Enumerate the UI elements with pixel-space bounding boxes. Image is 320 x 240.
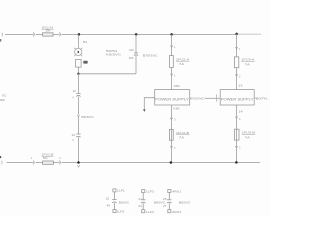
arrow box1 left down	[143, 109, 146, 112]
svg-text:50A: 50A	[43, 156, 48, 160]
chevron V4 pin2	[235, 74, 237, 76]
wire	[142, 203, 144, 209]
capacitor V1-a curve	[76, 94, 80, 97]
lamp B1 cross	[74, 48, 82, 56]
svg-text:1FU3-B: 1FU3-B	[242, 131, 255, 135]
terminal square 4RU2	[168, 210, 171, 213]
wire V1 to rail B	[77, 67, 79, 74]
wire rail B	[79, 73, 137, 75]
svg-text:5A6: 5A6	[129, 48, 134, 52]
svg-text:1LF2: 1LF2	[116, 209, 124, 213]
svg-text:7A: 7A	[179, 136, 184, 140]
capacitor V1-b curve	[76, 135, 80, 138]
svg-text:4: 4	[72, 97, 74, 100]
wire V3 upper	[171, 34, 173, 55]
underline	[176, 134, 189, 136]
capacitor C2 curve	[141, 201, 146, 204]
svg-text:B70/SVC: B70/SVC	[190, 96, 205, 100]
wire V1 lower	[77, 117, 79, 134]
wire	[168, 203, 170, 209]
svg-text:1LF4: 1LF4	[146, 210, 154, 214]
underline	[241, 60, 254, 62]
svg-text:WER: WER	[0, 98, 5, 102]
fuse 1FU2-B body	[169, 129, 173, 140]
wire top rail	[5, 33, 237, 35]
wire B70/SVC to box2	[205, 97, 221, 99]
svg-text:3: 3	[174, 119, 176, 122]
wire V1 bottom	[77, 137, 79, 162]
svg-text:25: 25	[163, 197, 167, 201]
chevron V4 pin4	[235, 117, 237, 119]
wire box2 right stub	[254, 97, 255, 99]
svg-text:7A: 7A	[245, 63, 250, 67]
junction dot D (top rail / V4)	[235, 33, 238, 36]
svg-text:K81: K81	[174, 84, 181, 88]
svg-text:K6/SVC: K6/SVC	[106, 53, 122, 57]
svg-text:22: 22	[73, 90, 77, 93]
wire V3 to box1	[171, 67, 173, 89]
svg-text:POWER SUPPLY: POWER SUPPLY	[155, 97, 189, 101]
wire V2 lower	[135, 56, 137, 74]
wire bottom rail	[7, 162, 261, 164]
wire V4 upper	[236, 34, 238, 57]
underline	[242, 134, 255, 136]
svg-text:7A: 7A	[179, 62, 184, 66]
capacitor group 2	[141, 190, 146, 213]
svg-text:B6SVC: B6SVC	[119, 201, 130, 205]
svg-text:5A8: 5A8	[129, 56, 134, 60]
junction dot F (bottom rail / V1)	[77, 161, 80, 164]
svg-text:POWER SUPPLY: POWER SUPPLY	[221, 97, 254, 101]
badge dark label	[83, 61, 87, 64]
fuse 1FU2-A body	[170, 56, 174, 68]
capacitor C2 plate	[141, 199, 146, 201]
svg-text:VDC: VDC	[2, 94, 6, 98]
junction dot G (bottom rail / V3)	[170, 161, 173, 164]
fuse F2 body	[43, 161, 54, 164]
svg-text:1LF3: 1LF3	[146, 190, 154, 194]
svg-text:B1: B1	[83, 40, 88, 44]
wire V4 below box2	[236, 105, 238, 162]
svg-text:B70/SVC: B70/SVC	[143, 53, 158, 57]
svg-text:B0/TH,: B0/TH,	[256, 97, 268, 101]
svg-text:1FU3-A: 1FU3-A	[241, 58, 254, 62]
svg-text:1FU2-A: 1FU2-A	[176, 57, 189, 61]
lamp B1 circle	[75, 48, 82, 55]
chevron V3 pin2	[170, 74, 172, 76]
svg-text:21: 21	[138, 197, 142, 201]
wire V4 to box2	[236, 68, 238, 90]
svg-text:4: 4	[239, 118, 241, 121]
svg-text:49: 49	[107, 203, 111, 207]
terminal square 1LF2	[113, 210, 116, 213]
fuse F1 right terminal	[59, 32, 60, 36]
svg-text:27: 27	[163, 204, 167, 208]
svg-text:13: 13	[238, 83, 243, 87]
lamp B1 center blob	[77, 51, 79, 54]
capacitor C3 curve	[167, 201, 172, 204]
svg-text:9: 9	[72, 139, 74, 142]
left edge mark top	[0, 39, 1, 42]
svg-text:22: 22	[106, 197, 110, 201]
wire	[113, 192, 115, 199]
contact V2 plate	[134, 52, 138, 54]
wire	[142, 193, 144, 200]
svg-text:1FU2-B: 1FU2-B	[176, 131, 189, 135]
svg-text:B6SVC: B6SVC	[179, 201, 191, 205]
svg-text:2: 2	[174, 75, 176, 78]
wire top rail faint right	[237, 33, 261, 35]
svg-text:1: 1	[174, 46, 176, 49]
terminal square 1LF4	[142, 210, 145, 213]
svg-text:50A: 50A	[46, 29, 51, 33]
svg-text:1LF1: 1LF1	[117, 189, 125, 193]
wire V1 mid	[77, 74, 79, 93]
terminal square 1LF3	[142, 190, 145, 193]
svg-text:B6/SVC: B6/SVC	[81, 115, 94, 119]
capacitor C1 plate	[112, 199, 117, 201]
underline	[42, 155, 54, 157]
fuse 1FU3-B body	[235, 129, 240, 140]
wire box1 left	[144, 98, 154, 110]
wire	[113, 203, 115, 209]
svg-text:4RU2: 4RU2	[172, 210, 181, 214]
capacitor V1-a plate	[76, 92, 80, 94]
terminal square 1LF1	[113, 189, 116, 192]
fuse F1 left terminal	[33, 32, 34, 36]
underline	[42, 28, 54, 30]
svg-text:K82: K82	[173, 107, 180, 111]
wire box1 right stub	[189, 97, 192, 99]
svg-text:1: 1	[31, 157, 33, 160]
svg-text:4RU1: 4RU1	[172, 190, 181, 194]
chevron below dot F	[77, 165, 79, 167]
junction dot H (bottom rail / V4)	[235, 161, 238, 164]
capacitor V1-b plate	[76, 133, 80, 135]
junction dot A (top rail / V1)	[78, 33, 81, 36]
component K housing below lamp	[76, 59, 82, 67]
chevron net B6SVC	[77, 115, 79, 117]
svg-text:7A: 7A	[245, 135, 250, 139]
terminal tick before box2	[216, 94, 218, 101]
wire V1 upper	[77, 34, 79, 48]
svg-text:2: 2	[174, 147, 176, 150]
svg-text:1: 1	[239, 48, 241, 51]
svg-text:24: 24	[72, 134, 76, 137]
svg-text:2: 2	[239, 147, 241, 150]
capacitor C1 curve	[112, 201, 117, 204]
wire V1 below cap a	[77, 97, 79, 115]
fuse F2 left terminal	[33, 161, 34, 165]
left edge mark bottom	[0, 156, 1, 158]
node bottom-left terminal	[0, 161, 3, 165]
power supply box2	[220, 90, 254, 105]
chevron V3 pin1	[170, 45, 172, 47]
chevron V3 lower pin2	[170, 146, 172, 148]
svg-text:23: 23	[138, 204, 142, 208]
svg-text:4: 4	[59, 157, 61, 160]
contact V2 curve	[134, 54, 138, 57]
node top-left terminal	[1, 33, 4, 37]
chevron V4 pin1	[235, 47, 237, 49]
capacitor C3 plate	[167, 199, 172, 201]
junction dot C (top rail / V3)	[170, 33, 173, 36]
power supply box1	[155, 90, 190, 105]
capacitor group 1	[112, 189, 117, 213]
svg-text:2: 2	[239, 75, 241, 78]
wire	[168, 193, 170, 200]
fuse F2 right terminal	[59, 161, 60, 165]
wire V3 below box1	[170, 105, 172, 163]
underline	[176, 60, 189, 62]
terminal square 4RU1	[168, 190, 171, 193]
capacitor group 3	[167, 190, 172, 213]
wire V2 upper	[135, 34, 137, 52]
fuse F1 body	[43, 33, 54, 36]
junction dot E (V1 / rail B)	[77, 73, 79, 75]
chevron V4 lower pin2	[235, 146, 237, 148]
chevron V3 pin8	[170, 118, 172, 120]
svg-text:14: 14	[238, 110, 243, 114]
fuse 1FU3-A body	[234, 57, 238, 68]
junction dot B (top rail / V2)	[135, 33, 138, 36]
